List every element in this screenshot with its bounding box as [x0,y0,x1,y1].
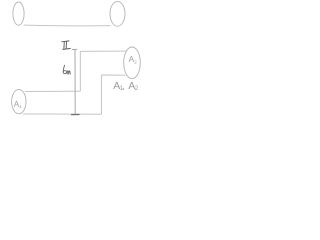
pipe A1 bottom line [23,113,101,115]
height measure vertical line [74,50,76,114]
label 6m [63,65,70,74]
svg-text:A2: A2 [129,55,137,65]
pipe A2 top line [80,50,126,52]
pipe I right end ellipse [110,1,125,26]
pipe A1 end ellipse [12,89,26,113]
svg-text:A1: A1 [14,100,22,110]
riser left wall [79,51,81,91]
svg-text:,: , [122,80,125,92]
svg-text:2: 2 [135,86,139,92]
height measure bottom serif [71,114,80,116]
pipe I left end ellipse [13,2,24,25]
height measure top serif [72,48,77,50]
pipe A2 bottom line [101,74,125,76]
pipe I bottom line [24,24,111,27]
pipe A2 end ellipse [124,47,141,79]
riser right wall [100,75,102,114]
level label II [62,41,71,50]
pipe A1 top line [25,90,80,92]
